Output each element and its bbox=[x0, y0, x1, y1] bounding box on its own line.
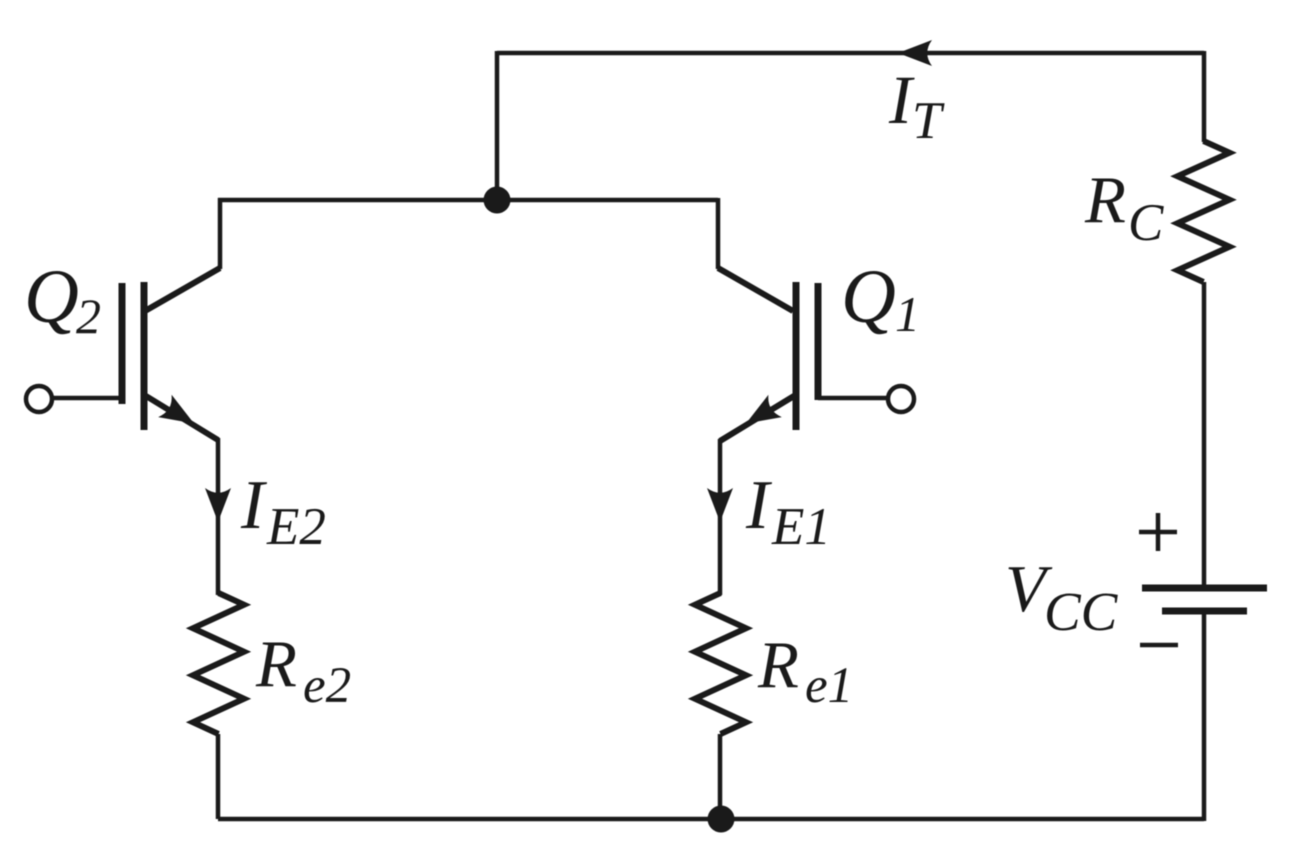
svg-text:2: 2 bbox=[76, 288, 101, 344]
arrow current IE1 bbox=[707, 488, 733, 522]
wire Q2 collector vertical bbox=[218, 198, 223, 269]
svg-text:CC: CC bbox=[1044, 581, 1119, 642]
wire collector bus bbox=[218, 198, 718, 203]
wire bottom horizontal bbox=[218, 817, 1204, 822]
svg-text:T: T bbox=[912, 92, 945, 150]
svg-text:C: C bbox=[1128, 194, 1164, 252]
svg-text:I: I bbox=[240, 467, 268, 544]
svg-text:E2: E2 bbox=[266, 498, 326, 556]
node top junction bbox=[484, 187, 511, 214]
svg-text:R: R bbox=[757, 628, 799, 702]
arrow current IE2 bbox=[205, 488, 231, 522]
transistor Q1 collector diagonal bbox=[718, 268, 793, 311]
wire Re1 bottom lead bbox=[718, 734, 723, 819]
resistor Re2 bbox=[193, 593, 244, 734]
svg-text:Q: Q bbox=[24, 255, 79, 339]
svg-text:R: R bbox=[1084, 163, 1126, 237]
node bottom junction bbox=[708, 806, 735, 833]
battery VCC top plate bbox=[1142, 585, 1267, 592]
wire top horizontal bbox=[497, 51, 1204, 56]
transistor Q2 collector diagonal bbox=[145, 268, 220, 311]
svg-text:Q: Q bbox=[841, 255, 896, 339]
transistor Q1 emitter arrow bbox=[739, 395, 782, 435]
wire Q1 emitter vertical bbox=[718, 439, 723, 595]
resistor RC bbox=[1178, 141, 1230, 282]
svg-text:R: R bbox=[255, 627, 297, 701]
battery plus sign bbox=[1139, 513, 1177, 551]
wire Q2 emitter vertical bbox=[216, 438, 221, 595]
battery VCC bottom plate bbox=[1162, 608, 1247, 615]
svg-text:e2: e2 bbox=[303, 658, 351, 714]
svg-text:E1: E1 bbox=[771, 498, 831, 556]
svg-text:e1: e1 bbox=[805, 658, 853, 714]
terminal Q2 base circle bbox=[26, 386, 52, 412]
arrow current IT bbox=[898, 40, 932, 66]
wire right vertical upper bbox=[1202, 51, 1207, 142]
transistor Q2 emitter diagonal bbox=[146, 396, 218, 440]
terminal Q1 base circle bbox=[888, 386, 914, 412]
wire right vertical lower bbox=[1202, 611, 1207, 821]
transistor Q2 base bar bbox=[119, 283, 126, 404]
battery minus sign bbox=[1140, 643, 1178, 648]
wire Q1 base lead bbox=[818, 396, 888, 401]
resistor Re1 bbox=[695, 593, 746, 734]
transistor Q1 base bar bbox=[815, 283, 822, 400]
wire right vertical middle bbox=[1202, 282, 1207, 588]
svg-text:1: 1 bbox=[895, 286, 920, 342]
svg-text:I: I bbox=[888, 62, 915, 138]
transistor Q2 emitter arrow bbox=[158, 395, 201, 435]
transistor Q1 body bar bbox=[793, 282, 800, 430]
wire top-centre vertical drop bbox=[495, 51, 500, 200]
wire Q1 collector vertical bbox=[716, 198, 721, 269]
wire Re2 bottom lead bbox=[216, 734, 221, 819]
transistor Q1 emitter diagonal bbox=[720, 396, 794, 441]
wire Q2 base lead bbox=[52, 396, 122, 401]
svg-text:I: I bbox=[745, 467, 773, 544]
transistor Q2 body bar bbox=[141, 282, 148, 430]
